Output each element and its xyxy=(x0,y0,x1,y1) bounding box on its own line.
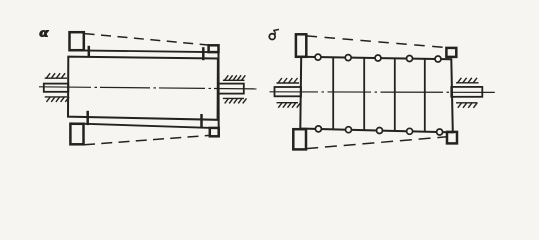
disc divider 3 B xyxy=(394,58,396,131)
disc divider 1 B xyxy=(332,57,334,129)
top hanger line A xyxy=(70,50,219,52)
plane tick top-left A xyxy=(88,46,91,58)
weight bottom-right A xyxy=(210,128,219,136)
centerline B (dash-dot) xyxy=(270,91,495,94)
svg-text:α: α xyxy=(40,26,49,40)
left bearing B upper hatch xyxy=(277,78,300,83)
disc divider 2 B xyxy=(363,58,365,130)
label b top bar xyxy=(273,29,279,30)
left shaft stub A xyxy=(44,84,69,92)
centerline A (dash-dot) xyxy=(39,87,257,89)
weight top-right A xyxy=(209,45,219,52)
plane tick top-right A xyxy=(202,47,205,60)
bottom dashed unbalance line A xyxy=(84,135,209,144)
left bearing B lower hatch xyxy=(277,103,301,108)
left shaft stub B xyxy=(275,87,302,96)
bottom dashed unbalance line B xyxy=(306,137,447,149)
bottom hanger line A xyxy=(70,123,219,128)
rotor body A outline xyxy=(68,57,218,120)
top dashed unbalance line A xyxy=(85,34,209,45)
weight top-left A xyxy=(70,32,84,50)
plane tick bottom-right A xyxy=(200,114,203,128)
weight top-right B xyxy=(446,48,456,57)
disc joint circles top B xyxy=(315,54,441,62)
weight top-left B xyxy=(296,34,306,57)
disc divider 4 B xyxy=(424,59,426,132)
right shaft stub B xyxy=(451,87,482,97)
right bearing B lower hatch xyxy=(456,103,478,108)
label b (diagram b) : bowl xyxy=(269,34,275,40)
weight bottom-left A xyxy=(70,124,83,145)
left bearing A lower hatch xyxy=(45,97,69,102)
right bearing B upper hatch xyxy=(456,78,479,83)
right bearing A lower hatch xyxy=(223,98,247,103)
rotor right edge extension A xyxy=(218,52,220,136)
right bearing A upper hatch xyxy=(223,75,245,80)
right shaft stub A xyxy=(218,84,244,94)
top dashed unbalance line B xyxy=(307,36,447,48)
plane tick bottom-left A xyxy=(86,111,89,125)
weight bottom-left B xyxy=(293,129,306,149)
left bearing A upper hatch xyxy=(45,73,67,78)
rotor body B outline xyxy=(300,57,453,133)
weight bottom-right B xyxy=(447,132,457,144)
disc joint circles bottom B xyxy=(315,126,442,135)
label b riser xyxy=(274,31,275,35)
